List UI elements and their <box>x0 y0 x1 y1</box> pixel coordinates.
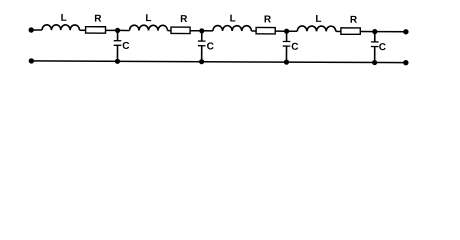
resistor R1 <box>86 27 106 33</box>
resistor R2 <box>171 27 190 33</box>
inductor L4 <box>297 26 336 31</box>
node: junction of R4, C4 <box>372 29 377 34</box>
wire <box>360 31 374 33</box>
node: C2 bottom junction <box>199 59 204 64</box>
wire <box>105 29 117 31</box>
node: C3 bottom junction <box>284 59 289 64</box>
capacitor C3 <box>283 31 291 62</box>
wire <box>167 30 170 32</box>
capacitor C1 <box>114 30 122 61</box>
node: junction of R3, L4, C3 <box>284 29 289 34</box>
wire <box>118 29 130 31</box>
resistor R4 <box>341 28 360 34</box>
wire <box>287 30 298 32</box>
wire <box>202 30 213 32</box>
svg-text:L: L <box>61 13 67 24</box>
svg-text:C: C <box>379 42 386 53</box>
wire <box>375 31 406 33</box>
svg-text:L: L <box>230 14 236 25</box>
svg-text:L: L <box>145 13 151 24</box>
terminal (top-right output) <box>403 29 408 34</box>
wire <box>275 30 286 32</box>
svg-text:R: R <box>180 14 188 25</box>
inductor L3 <box>213 26 252 31</box>
wire <box>251 30 256 32</box>
svg-text:C: C <box>291 42 298 53</box>
svg-text:R: R <box>94 14 102 25</box>
node: junction of R2, L3, C2 <box>199 28 204 33</box>
svg-text:L: L <box>315 14 321 25</box>
wire <box>336 30 341 32</box>
svg-text:C: C <box>122 41 129 52</box>
wire (bottom return rail) <box>31 61 405 63</box>
terminal (bottom-left input) <box>29 58 34 63</box>
wire <box>31 29 42 31</box>
svg-text:R: R <box>350 15 358 26</box>
svg-text:C: C <box>207 41 214 52</box>
inductor L2 <box>129 25 167 30</box>
capacitor C4 <box>371 32 379 63</box>
capacitor C2 <box>198 31 206 62</box>
node: C1 bottom junction <box>115 59 120 64</box>
wire <box>79 29 85 31</box>
node: junction of R1, L2, C1 <box>115 28 120 33</box>
terminal (top-left input) <box>28 27 33 32</box>
resistor R3 <box>256 27 275 33</box>
svg-text:R: R <box>264 14 272 25</box>
wire <box>190 30 202 32</box>
inductor L1 <box>42 25 79 30</box>
node: C4 bottom junction <box>372 60 377 65</box>
terminal (bottom-right output) <box>403 60 408 65</box>
